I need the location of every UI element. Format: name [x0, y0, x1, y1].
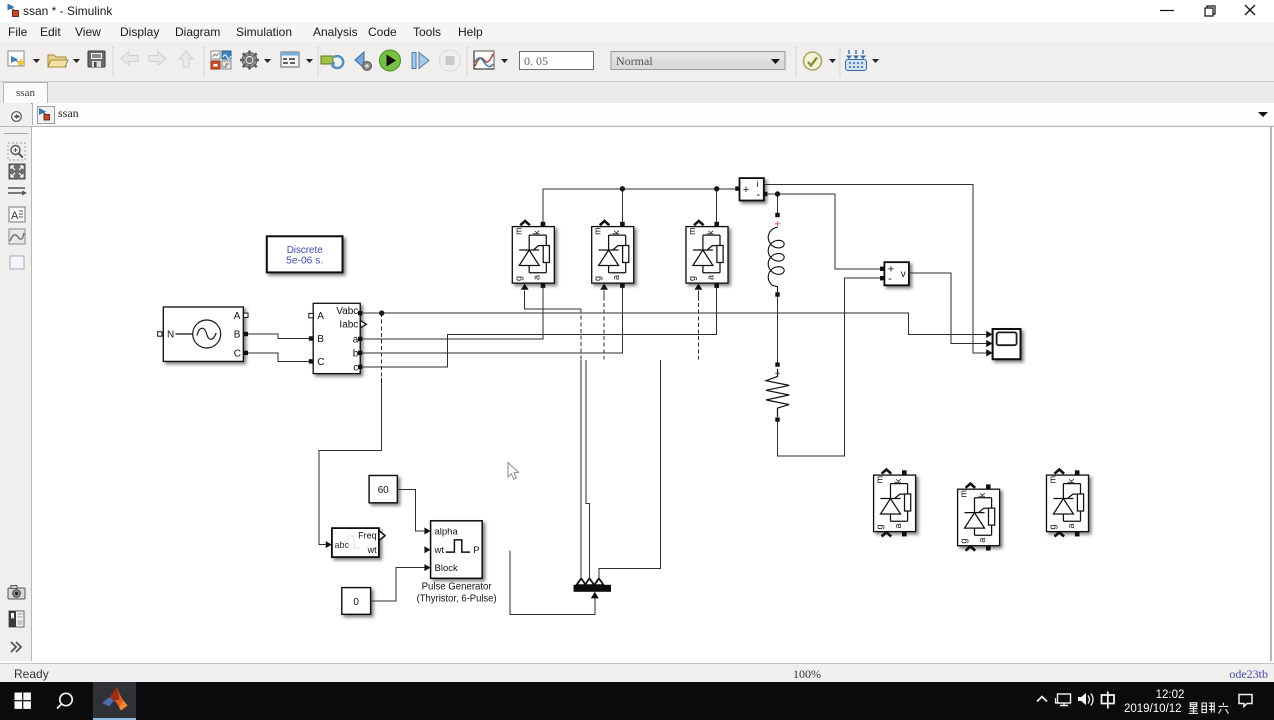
- port B: [244, 332, 248, 336]
- forward arrow (disabled): [149, 52, 166, 66]
- start button: [15, 693, 31, 709]
- svg-text:N: N: [167, 330, 174, 341]
- fit to view: [9, 164, 25, 179]
- svg-text:A: A: [234, 311, 241, 322]
- wire: Thy1 gate lead: [525, 291, 582, 310]
- svg-text:Block: Block: [435, 563, 458, 574]
- model config icon: [281, 52, 299, 67]
- IME indicator 中: [1102, 692, 1115, 709]
- library book: [9, 611, 24, 627]
- wire: current i output to scope input 3: [764, 184, 987, 353]
- thyristor Thy6 (unconnected): [1047, 470, 1089, 537]
- svg-text:+: +: [743, 184, 749, 196]
- svg-text:C: C: [317, 357, 324, 368]
- wire: pulse line 2 to ground terminal 2: [586, 360, 590, 579]
- run button: [380, 50, 401, 71]
- junction node: bus at Thy3: [714, 186, 719, 191]
- svg-text:(Thyristor, 6-Pulse): (Thyristor, 6-Pulse): [417, 593, 497, 605]
- svg-text:Vabc: Vabc: [336, 306, 358, 317]
- wire: source B to measurement B: [248, 334, 309, 339]
- wire: phase a to Thy1 anode: [362, 288, 543, 339]
- svg-text:-: -: [757, 189, 761, 201]
- camera: [8, 588, 25, 599]
- svg-text:A: A: [317, 311, 324, 322]
- mode combo: [611, 52, 785, 70]
- wire: current meas minus to voltage meas plus: [767, 194, 880, 269]
- input port C: [309, 359, 313, 363]
- back arrow (disabled): [121, 52, 138, 66]
- PLL block (abc Freq wt): [326, 528, 385, 557]
- svg-text:Normal: Normal: [616, 54, 653, 68]
- up arrow (disabled): [179, 51, 193, 67]
- wire: Thy2 gate lead: [603, 291, 605, 297]
- action center: [1239, 695, 1252, 707]
- svg-text:Iabc: Iabc: [339, 320, 358, 331]
- powergui block (Discrete 5e-06 s.): [267, 236, 343, 272]
- thyristor Thy2: [592, 221, 634, 290]
- three-phase V-I measurement block: [309, 303, 367, 373]
- svg-text:5e-06 s.: 5e-06 s.: [286, 256, 323, 267]
- svg-text:2019/10/12: 2019/10/12: [1124, 703, 1182, 715]
- output port b: [358, 351, 362, 355]
- wire: inductor L1 to resistor R1: [777, 297, 779, 363]
- thyristor Thy5 (unconnected): [958, 484, 1000, 551]
- subsystem box: [10, 256, 24, 269]
- wire: voltage meas output to scope input 2: [909, 273, 987, 343]
- wire: bus drop to Thy3 cathode: [716, 189, 718, 222]
- svg-text:C: C: [234, 349, 241, 360]
- svg-text:c: c: [353, 362, 358, 373]
- svg-text:wt: wt: [367, 545, 377, 555]
- wire: Thy3 gate lead: [697, 291, 699, 297]
- thyristor Thy4 (unconnected): [874, 470, 916, 537]
- svg-text:Freq: Freq: [358, 531, 377, 541]
- volume icon: [1079, 694, 1094, 706]
- output port c: [358, 365, 362, 369]
- save floppy: [88, 51, 105, 67]
- chevrons: [11, 642, 21, 652]
- inductor L1: [768, 213, 784, 297]
- input port B: [309, 336, 313, 340]
- ground terminal 2: [585, 578, 595, 585]
- ground bar: [574, 585, 612, 592]
- wire: ground bus tail: [510, 550, 595, 614]
- svg-text:Discrete: Discrete: [287, 245, 323, 256]
- step forward: [412, 53, 416, 69]
- svg-text:a: a: [353, 334, 359, 345]
- svg-text:60: 60: [378, 485, 390, 496]
- zoom tool: [8, 143, 25, 160]
- port A (unconnected): [244, 313, 248, 317]
- update diagram icon: [321, 56, 333, 64]
- resistor R1: [766, 362, 789, 421]
- tray chevron: [1037, 697, 1047, 702]
- wire: pulse line 1 to ground terminal 1: [580, 360, 582, 579]
- search button: [60, 693, 72, 705]
- weekday glyphs: [1189, 703, 1229, 714]
- wire: source C to measurement C: [248, 353, 309, 362]
- ground output arrow: [591, 592, 599, 599]
- constant block 60: [369, 476, 397, 503]
- back circle (in crumb row is separate): [4, 133, 28, 135]
- thyristor Thy1: [512, 221, 554, 290]
- svg-text:B: B: [234, 330, 241, 341]
- signal arrows: [8, 188, 25, 193]
- svg-text:0: 0: [353, 597, 359, 608]
- pulse generator block: [417, 521, 497, 605]
- constant block 0: [342, 588, 371, 615]
- wire: bus drop to Thy2 cathode: [621, 189, 623, 222]
- sim data inspector icon: [474, 51, 494, 69]
- wire: DC bus from Thy1 cathode to current measurement: [543, 189, 735, 222]
- wire: branch down to inductor L1: [777, 194, 779, 213]
- step back icon: [355, 52, 364, 68]
- network icon: [1056, 694, 1071, 706]
- svg-text:v: v: [901, 269, 906, 280]
- validity check icon: [804, 52, 822, 70]
- wire: constant 60 to alpha input: [397, 489, 424, 531]
- wire: resistor R1 bottom loop to voltage meas minus: [778, 278, 881, 456]
- thyristor Thy3: [686, 221, 728, 290]
- junction node: bus at Thy2: [620, 186, 625, 191]
- stop (disabled): [440, 50, 461, 71]
- open folder: [48, 55, 66, 67]
- output port Vabc: [358, 311, 362, 315]
- svg-text:Pulse Generator: Pulse Generator: [422, 581, 492, 593]
- wire: Vabc branch down to PLL abc input: [381, 313, 383, 378]
- svg-text:B: B: [317, 334, 324, 345]
- wire: Vabc to scope input 1: [362, 313, 986, 334]
- wire: pulse line 3 to ground terminal 3: [599, 360, 661, 579]
- voltage measurement block: [880, 262, 909, 285]
- wire: phase c to Thy3 anode: [362, 288, 716, 367]
- svg-text:abc: abc: [335, 540, 350, 550]
- wire: phase b to Thy2 anode: [362, 288, 622, 353]
- svg-text:A: A: [11, 210, 19, 222]
- svg-text:P: P: [473, 545, 479, 556]
- matlab logo: [102, 687, 128, 711]
- output arrow Iabc (unconnected): [360, 321, 366, 328]
- svg-text:12:02: 12:02: [1156, 689, 1185, 701]
- annotation A: [9, 207, 25, 222]
- scope block: [986, 329, 1020, 359]
- three-phase programmable voltage source block: [158, 307, 248, 361]
- current measurement block U-I: [735, 178, 767, 201]
- input port A (unconnected): [309, 313, 313, 317]
- keyboard icon: [846, 50, 867, 71]
- svg-text:0. 05: 0. 05: [524, 54, 548, 68]
- svg-text:-: -: [888, 273, 892, 285]
- curve icon: [9, 229, 25, 244]
- port N (unconnected): [158, 332, 162, 336]
- library browser icon: [211, 51, 220, 59]
- port C: [244, 351, 248, 355]
- ground bus bar: [574, 578, 612, 598]
- gear: [240, 51, 259, 70]
- junction node: minus line to load: [775, 191, 780, 196]
- svg-text:b: b: [353, 348, 359, 359]
- mouse cursor: [508, 463, 519, 480]
- new model icon: [8, 51, 24, 66]
- svg-text:i: i: [757, 179, 759, 189]
- time field: [520, 52, 594, 70]
- junction node: Vabc branch: [379, 310, 384, 315]
- output port a: [358, 337, 362, 341]
- svg-text:wt: wt: [434, 545, 445, 556]
- ground terminal 1: [576, 578, 586, 585]
- wire: constant 0 to Block input: [371, 568, 425, 601]
- ground terminal 3: [594, 578, 604, 585]
- svg-text:alpha: alpha: [435, 527, 459, 538]
